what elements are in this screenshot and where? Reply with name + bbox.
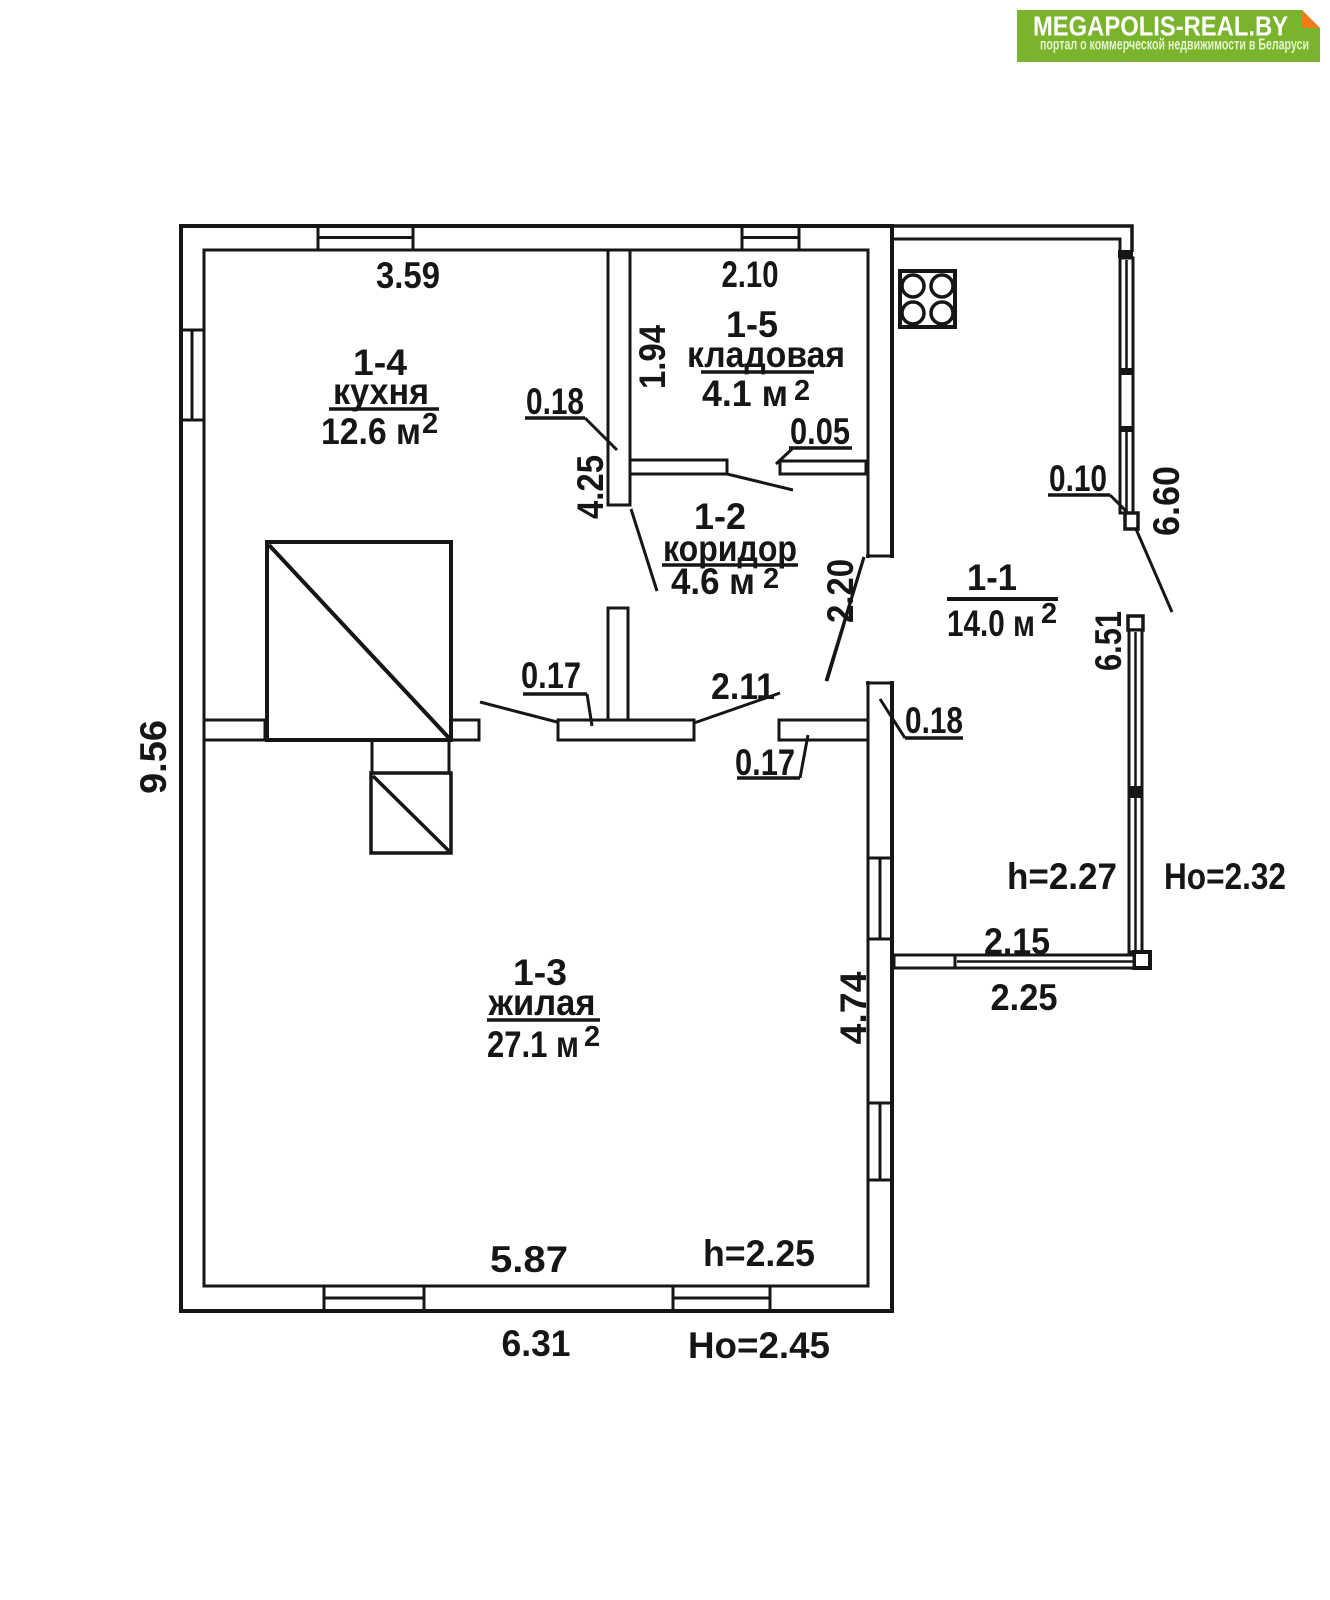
dimension 2.25 below veranda wall: [991, 977, 1058, 1018]
dimension 0.17 left with leader: [521, 655, 592, 726]
veranda bottom thin wall: [894, 955, 1134, 968]
wall: storage room 1-5 west wall: [608, 250, 630, 505]
window left wall: mid line and ticks: [181, 330, 204, 420]
svg-text:4.25: 4.25: [570, 455, 611, 519]
room label 1-3 living: [487, 952, 600, 1065]
dimension 0.17 right with leader: [735, 735, 808, 783]
dimension 2.11 with slanted leader: [694, 666, 780, 723]
svg-text:0.18: 0.18: [905, 700, 963, 741]
svg-text:4.74: 4.74: [833, 971, 874, 1044]
wall: interior horizontal segment D (right, 0.18 stub side): [779, 720, 868, 740]
svg-text:1-1: 1-1: [967, 557, 1017, 598]
window W1 top wall: mid line: [318, 226, 413, 250]
logo folded corner orange: [1302, 10, 1320, 28]
svg-text:жилая: жилая: [488, 982, 596, 1023]
dimension Ho=2.32: [1164, 856, 1286, 897]
logo subtitle text: [1040, 37, 1309, 54]
svg-text:6.60: 6.60: [1146, 466, 1187, 536]
svg-text:2: 2: [1041, 598, 1057, 630]
svg-text:кухня: кухня: [333, 371, 429, 412]
veranda top thin wall inner line: [894, 239, 1120, 252]
svg-text:h=2.25: h=2.25: [703, 1233, 815, 1274]
wall: interior horizontal segment B (right of oven): [451, 720, 479, 740]
svg-text:2.11: 2.11: [711, 666, 775, 707]
door opening gap in east wall (corridor to room 1-1): [863, 558, 897, 681]
logo title text: [1033, 11, 1288, 42]
svg-text:2: 2: [584, 1021, 600, 1053]
svg-text:6.31: 6.31: [502, 1323, 571, 1364]
svg-text:5.87: 5.87: [490, 1239, 568, 1280]
room label 1-5 storage: [687, 304, 845, 414]
dimension 0.05 with leader: [776, 411, 852, 464]
dimension 2.10: [722, 254, 779, 295]
dimension 0.18 upper with leader: [525, 381, 617, 450]
dimension 1.94 rotated: [632, 325, 673, 389]
svg-text:4.6 м: 4.6 м: [671, 561, 755, 602]
dimension 9.56 rotated: [133, 720, 174, 794]
veranda SE corner block: [1134, 952, 1150, 968]
svg-text:4.1 м: 4.1 м: [702, 373, 788, 414]
dimension 0.18 right with leader: [880, 699, 963, 741]
svg-text:портал о коммерческой недвижим: портал о коммерческой недвижимости в Бел…: [1040, 37, 1309, 54]
veranda east wall upper end block: [1125, 513, 1138, 529]
veranda east wall lower band with windows: [1128, 630, 1143, 952]
room label 1-4 kitchen: [321, 342, 439, 452]
dimension 5.87: [490, 1239, 568, 1280]
wall end cap above opening: [866, 555, 894, 558]
svg-text:0.10: 0.10: [1049, 458, 1107, 499]
svg-text:2: 2: [422, 408, 438, 440]
window E1 east wall: [868, 858, 892, 939]
wall end cap below opening (stub top): [866, 682, 894, 685]
svg-text:кладовая: кладовая: [687, 334, 845, 375]
dimension 6.51 rotated: [1088, 611, 1129, 671]
svg-text:Ho=2.45: Ho=2.45: [688, 1325, 830, 1366]
dimension 6.60 rotated: [1146, 466, 1187, 536]
window B1 bottom wall: [324, 1286, 424, 1311]
kitchen stove symbol (4 burners): [900, 271, 955, 327]
wall: interior horizontal segment C (under corridor): [558, 720, 694, 740]
dimension 0.10 with leaders: [1048, 458, 1172, 612]
veranda east wall upper band with windows: [1119, 258, 1134, 513]
wall: main house inner boundary line: [204, 250, 868, 1286]
dimension Ho=2.45: [688, 1325, 830, 1366]
svg-text:2: 2: [794, 375, 810, 407]
wall: storage south wall right segment (0.05 piece): [780, 461, 866, 474]
svg-text:27.1 м: 27.1 м: [487, 1024, 579, 1065]
dimension 2.15: [984, 921, 1050, 962]
window B2 bottom wall: [673, 1286, 770, 1311]
veranda east wall lower start block: [1128, 616, 1143, 630]
dimension h=2.27: [1007, 856, 1117, 897]
dimension h=2.25: [703, 1233, 815, 1274]
wall: interior horizontal segment A (left of oven): [204, 720, 265, 740]
oven big square with diagonal: [267, 542, 451, 740]
door leaf: corridor to room 1-1: [827, 557, 864, 681]
window E2 east wall: [868, 1103, 892, 1180]
svg-text:2: 2: [763, 563, 779, 595]
veranda top thin wall outer line: [894, 226, 1132, 252]
wall: corridor west wall stub: [608, 608, 628, 722]
dimension 4.74 rotated: [833, 971, 874, 1044]
svg-text:12.6 м: 12.6 м: [321, 411, 421, 452]
veranda NE corner block: [1118, 250, 1133, 258]
door leaf: kitchen to living room: [480, 702, 557, 722]
svg-text:2.10: 2.10: [722, 254, 779, 295]
wall: main house outer boundary: [181, 226, 892, 1311]
svg-text:2.25: 2.25: [991, 977, 1058, 1018]
dimension 4.25 rotated: [570, 455, 611, 519]
dimension 2.20 rotated with leader: [820, 557, 864, 681]
room label 1-1: [947, 557, 1058, 644]
dimension 6.31: [502, 1323, 571, 1364]
small stove square with diagonal: [371, 773, 451, 853]
svg-text:h=2.27: h=2.27: [1007, 856, 1117, 897]
svg-text:0.17: 0.17: [521, 655, 581, 696]
svg-text:9.56: 9.56: [133, 720, 174, 794]
svg-text:1.94: 1.94: [632, 325, 673, 389]
svg-text:0.18: 0.18: [526, 381, 584, 422]
oven neck lines: [372, 740, 449, 773]
svg-text:Ho=2.32: Ho=2.32: [1164, 856, 1286, 897]
svg-text:3.59: 3.59: [376, 255, 440, 296]
dimension 3.59: [376, 255, 440, 296]
door leaf: kitchen to corridor: [631, 509, 657, 591]
logo megapolis-real.by green plate: [1017, 10, 1320, 62]
svg-text:6.51: 6.51: [1088, 611, 1129, 671]
door leaf: storage door: [727, 474, 793, 490]
svg-text:14.0 м: 14.0 м: [947, 603, 1035, 644]
svg-text:2.15: 2.15: [984, 921, 1050, 962]
window W2 top wall over storage: mid line: [742, 226, 799, 250]
wall: storage south wall left segment: [630, 460, 727, 474]
svg-text:0.05: 0.05: [790, 411, 850, 452]
room label 1-2 corridor: [662, 496, 798, 602]
